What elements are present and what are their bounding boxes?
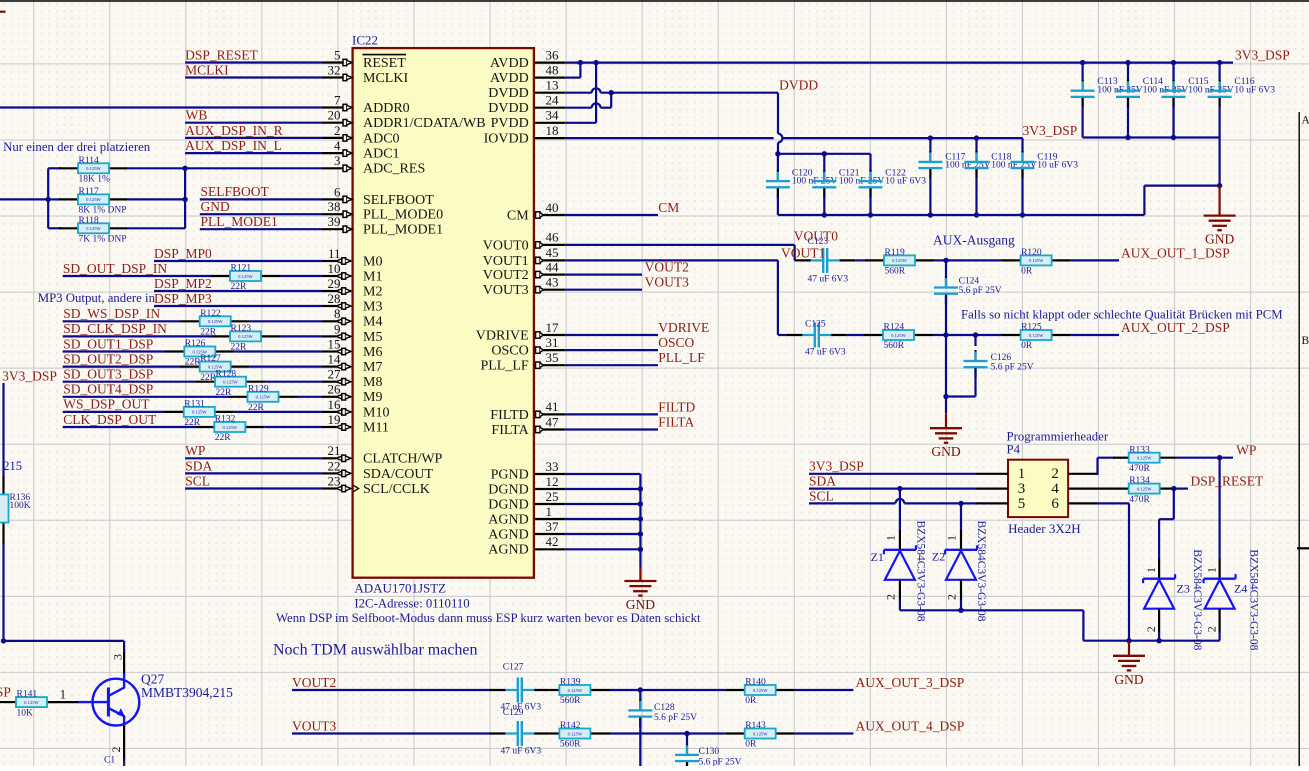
- resistor R121 pins: [211, 275, 230, 277]
- svg-text:25: 25: [546, 489, 559, 504]
- svg-text:0.125W: 0.125W: [1029, 333, 1044, 338]
- wire gnd jog: [1143, 186, 1145, 215]
- wire VOUT2 row: [292, 689, 491, 691]
- svg-text:1: 1: [60, 687, 67, 702]
- svg-text:GND: GND: [626, 597, 655, 612]
- svg-text:0.125W: 0.125W: [568, 688, 583, 693]
- junction: [1156, 638, 1161, 643]
- svg-text:R140: R140: [745, 678, 766, 688]
- svg-text:9: 9: [334, 321, 341, 336]
- wire C126 bottom: [974, 370, 976, 397]
- svg-text:3V3_DSP: 3V3_DSP: [1235, 47, 1290, 62]
- svg-text:DVDD: DVDD: [779, 78, 818, 93]
- svg-text:M0: M0: [363, 254, 382, 269]
- wire Z1 bottom: [899, 600, 901, 611]
- svg-text:AVDD: AVDD: [490, 56, 529, 71]
- resistor R134: [1129, 476, 1160, 505]
- junction: [182, 197, 187, 202]
- svg-text:FILTA: FILTA: [658, 414, 694, 429]
- svg-text:0.125W: 0.125W: [753, 731, 768, 736]
- svg-text:39: 39: [328, 214, 341, 229]
- svg-text:AVDD: AVDD: [490, 71, 529, 86]
- svg-text:AUX_OUT_4_DSP: AUX_OUT_4_DSP: [856, 719, 965, 734]
- wire R119-R120: [934, 259, 1002, 261]
- wire Z4 bottom: [1218, 632, 1220, 641]
- wire VOUT1: [565, 259, 778, 261]
- svg-text:C126: C126: [991, 353, 1012, 363]
- wire to AUX4: [795, 732, 854, 734]
- svg-text:VDRIVE: VDRIVE: [476, 328, 529, 343]
- wire hop: [778, 134, 782, 143]
- wire hop: [592, 103, 601, 107]
- svg-text:41: 41: [546, 399, 559, 414]
- svg-text:ADC_RES: ADC_RES: [363, 162, 425, 177]
- junction: [775, 151, 780, 156]
- svg-text:ADDR0: ADDR0: [363, 101, 410, 116]
- resistor R129 pins: [229, 396, 248, 398]
- svg-text:BZX584C3V3-G3-08: BZX584C3V3-G3-08: [1191, 549, 1203, 650]
- capacitor C128: [628, 699, 697, 727]
- svg-text:BZX584C3V3-G3-08: BZX584C3V3-G3-08: [1248, 549, 1260, 650]
- wire SCL: [185, 487, 322, 489]
- wire PLL_MODE1: [200, 228, 323, 230]
- junction: [928, 135, 933, 140]
- pin 14 (M7): [323, 352, 383, 376]
- svg-text:2: 2: [109, 747, 123, 753]
- svg-text:DSP_MP3: DSP_MP3: [154, 291, 212, 306]
- wire M11 left: [63, 426, 196, 428]
- svg-text:560R: 560R: [560, 696, 581, 706]
- svg-text:0.125W: 0.125W: [1137, 486, 1152, 491]
- svg-text:4: 4: [334, 138, 341, 153]
- svg-text:DVDD: DVDD: [488, 86, 528, 101]
- junction: [578, 60, 583, 65]
- svg-text:47: 47: [546, 414, 560, 429]
- capacitor C120: [766, 154, 838, 215]
- wire GND: [200, 213, 323, 215]
- svg-text:45: 45: [546, 245, 559, 260]
- pin 45 (VOUT1): [483, 245, 565, 269]
- junction: [684, 731, 689, 736]
- capacitor C122: [859, 154, 927, 215]
- wire GND bus rows: [565, 473, 640, 475]
- svg-text:0.125W: 0.125W: [891, 333, 906, 338]
- wire C123-R119: [855, 259, 865, 261]
- svg-text:SD_OUT2_DSP: SD_OUT2_DSP: [63, 351, 153, 366]
- pin 18 (IOVDD): [484, 123, 566, 147]
- junction: [974, 135, 979, 140]
- resistor R117: [78, 187, 127, 216]
- svg-text:560R: 560R: [884, 341, 905, 351]
- ground chip bottom: [624, 567, 656, 612]
- svg-text:C125: C125: [805, 319, 826, 329]
- junction: [943, 332, 948, 337]
- svg-text:FILTD: FILTD: [658, 399, 695, 414]
- svg-text:3V3_DSP: 3V3_DSP: [1023, 123, 1078, 138]
- svg-text:0.125W: 0.125W: [238, 334, 253, 339]
- svg-text:2: 2: [1051, 466, 1059, 482]
- svg-text:RESET: RESET: [363, 56, 406, 71]
- wire 3V3 header: [809, 473, 977, 475]
- wire to AUX3: [795, 689, 854, 691]
- svg-text:WP: WP: [185, 443, 205, 458]
- header pin 3: [976, 488, 1008, 490]
- zener Z1: [871, 521, 927, 622]
- svg-text:VOUT0: VOUT0: [483, 238, 529, 253]
- svg-text:26: 26: [328, 382, 342, 397]
- svg-text:0R: 0R: [1021, 341, 1033, 351]
- svg-text:VOUT3: VOUT3: [292, 719, 336, 734]
- capacitor C125: [787, 319, 847, 357]
- svg-text:0.125W: 0.125W: [86, 166, 101, 171]
- wire DSP_RESET: [185, 61, 322, 63]
- svg-text:SD_OUT1_DSP: SD_OUT1_DSP: [63, 336, 153, 351]
- header pin 1: [976, 473, 1008, 475]
- resistor R122 pins: [181, 320, 200, 322]
- pin 35 (PLL_LF): [480, 350, 565, 374]
- wire M10 right: [234, 411, 323, 413]
- svg-text:WB: WB: [186, 108, 208, 123]
- capacitor C113: [1071, 63, 1143, 138]
- pin 2 Z2 lead: [960, 580, 962, 600]
- svg-text:IC22: IC22: [352, 32, 378, 47]
- wire pin34 link: [565, 122, 596, 124]
- svg-text:R126: R126: [185, 339, 206, 349]
- resistor R122: [200, 309, 231, 338]
- svg-text:MCLKI: MCLKI: [363, 71, 408, 86]
- ground stub bottom: [123, 763, 125, 766]
- sheet tick left: [0, 11, 6, 13]
- svg-text:SDA: SDA: [185, 458, 212, 473]
- svg-text:I2C-Adresse: 0110110: I2C-Adresse: 0110110: [354, 596, 469, 610]
- svg-text:DVDD: DVDD: [488, 101, 528, 116]
- pin 3 (ADC_RES): [323, 153, 426, 177]
- svg-text:1: 1: [1205, 567, 1219, 573]
- pin 40 (CM): [507, 200, 565, 224]
- svg-text:18K 1%: 18K 1%: [79, 175, 110, 185]
- resistor R129: [248, 384, 279, 413]
- resistor R131 pins: [165, 411, 184, 413]
- svg-text:GND: GND: [931, 444, 960, 459]
- svg-text:6: 6: [1051, 496, 1059, 512]
- junction: [46, 197, 51, 202]
- svg-text:21: 21: [328, 443, 341, 458]
- capacitor C123: [795, 237, 855, 285]
- resistor R128: [215, 369, 246, 398]
- wire M8 left: [63, 381, 197, 383]
- svg-text:VOUT0: VOUT0: [794, 228, 838, 243]
- svg-text:48: 48: [546, 62, 559, 77]
- junction: [1217, 455, 1222, 460]
- wire pin24 link: [565, 107, 592, 109]
- resistor R125: [1021, 323, 1052, 352]
- junction: [638, 501, 643, 506]
- svg-text:DGND: DGND: [488, 482, 528, 497]
- svg-text:PLL_MODE1: PLL_MODE1: [363, 223, 443, 238]
- resistor R139 pins: [591, 689, 610, 691]
- resistor R127: [200, 354, 231, 383]
- svg-text:AGND: AGND: [488, 543, 528, 558]
- resistor R120 pins: [1002, 259, 1021, 261]
- pin 34 (PVDD): [491, 108, 566, 132]
- wire ADDR0: [0, 106, 323, 108]
- svg-text:AGND: AGND: [488, 512, 528, 527]
- svg-text:SD_WS_DSP_IN: SD_WS_DSP_IN: [63, 306, 160, 321]
- wire M6 right: [234, 350, 322, 352]
- wire to AUX1: [1071, 259, 1119, 261]
- svg-text:M3: M3: [363, 299, 382, 314]
- junction: [638, 547, 643, 552]
- wire right bus: [184, 168, 186, 228]
- pin 4 (ADC1): [323, 138, 400, 162]
- svg-text:AUX_DSP_IN_R: AUX_DSP_IN_R: [185, 123, 283, 138]
- svg-text:0.125W: 0.125W: [222, 425, 237, 430]
- transistor Q27: [79, 674, 140, 727]
- svg-text:SDA/COUT: SDA/COUT: [363, 467, 433, 482]
- svg-text:M10: M10: [363, 405, 389, 420]
- wire 3V3 vertical: [2, 383, 4, 476]
- svg-text:R125: R125: [1021, 323, 1042, 333]
- svg-text:0.125W: 0.125W: [208, 319, 223, 324]
- zener Z2: [932, 521, 987, 622]
- svg-text:WP: WP: [1236, 443, 1256, 458]
- svg-text:C1: C1: [104, 756, 115, 766]
- wire M4 right: [250, 320, 323, 322]
- svg-text:2: 2: [1205, 626, 1219, 632]
- svg-text:36: 36: [546, 47, 560, 62]
- svg-text:14: 14: [328, 352, 342, 367]
- wire M9 left: [63, 396, 229, 398]
- svg-text:27: 27: [328, 367, 342, 382]
- svg-text:23: 23: [328, 473, 341, 488]
- svg-text:Z4: Z4: [1234, 581, 1247, 595]
- wire WB: [185, 122, 322, 124]
- svg-text:AGND: AGND: [488, 527, 528, 542]
- svg-text:SD_CLK_DSP_IN: SD_CLK_DSP_IN: [63, 321, 167, 336]
- pin 2 (ADC0): [323, 123, 400, 147]
- capacitor C124: [934, 277, 1002, 305]
- svg-text:33: 33: [546, 459, 559, 474]
- svg-text:46: 46: [546, 230, 560, 245]
- wire DVDD vertical: [777, 93, 779, 134]
- svg-text:M6: M6: [363, 345, 382, 360]
- junction: [958, 501, 963, 506]
- resistor R114 pins: [59, 167, 78, 169]
- svg-text:M2: M2: [363, 284, 382, 299]
- pin 6 (SELFBOOT): [323, 184, 435, 208]
- resistor R139: [559, 678, 590, 707]
- wire SCL header: [809, 502, 896, 504]
- svg-text:5.6 pF 25V: 5.6 pF 25V: [654, 713, 697, 723]
- resistor R132 pins: [195, 426, 214, 428]
- pin 47 (FILTA): [491, 414, 565, 438]
- wire Z2 bottom: [960, 600, 962, 611]
- junction: [1171, 135, 1176, 140]
- pin 1 Z1 lead: [899, 530, 901, 550]
- capacitor C115: [1162, 63, 1234, 138]
- resistor R140 pins: [726, 689, 745, 691]
- wire C124 node: [945, 260, 947, 277]
- wire fragment right edge: [1297, 547, 1309, 549]
- svg-text:VOUT3: VOUT3: [645, 275, 689, 290]
- resistor R123: [230, 324, 261, 353]
- svg-text:0.125W: 0.125W: [238, 274, 253, 279]
- junction: [1217, 60, 1222, 65]
- svg-text:0.125W: 0.125W: [568, 731, 583, 736]
- pin 1 (AGND): [488, 504, 565, 528]
- svg-text:47 uF 6V3: 47 uF 6V3: [808, 274, 849, 284]
- svg-text:5.6 pF 25V: 5.6 pF 25V: [959, 286, 1002, 296]
- header P4 body: [1008, 460, 1068, 517]
- svg-text:IOVDD: IOVDD: [484, 132, 529, 147]
- wire C120 rail: [778, 153, 871, 155]
- svg-text:5: 5: [334, 47, 341, 62]
- svg-text:R124: R124: [884, 323, 905, 333]
- svg-text:C130: C130: [699, 747, 720, 757]
- svg-text:15: 15: [328, 336, 341, 351]
- svg-text:47 uF 6V3: 47 uF 6V3: [501, 747, 542, 757]
- junction: [1080, 60, 1085, 65]
- svg-text:6: 6: [334, 184, 341, 199]
- resistor R117 pins: [59, 198, 78, 200]
- junction: [1125, 60, 1130, 65]
- svg-text:CM: CM: [507, 208, 529, 223]
- pin 44 (VOUT2): [483, 259, 565, 283]
- wire M1 right: [280, 275, 323, 277]
- svg-text:VDRIVE: VDRIVE: [658, 320, 709, 335]
- resistor R133 pins: [1113, 457, 1129, 459]
- svg-text:3: 3: [1018, 481, 1026, 497]
- svg-text:470R: 470R: [1129, 495, 1150, 505]
- svg-text:R132: R132: [215, 415, 236, 425]
- wire WP: [185, 457, 322, 459]
- pin 23 (SCL/CCLK): [323, 473, 430, 497]
- svg-text:VOUT2: VOUT2: [483, 268, 529, 283]
- wire M1 left: [63, 275, 212, 277]
- svg-text:ADC1: ADC1: [363, 147, 400, 162]
- svg-text:FILTD: FILTD: [490, 408, 528, 423]
- pin 21 (CLATCH/WP): [323, 443, 443, 467]
- wire M7 left: [63, 366, 182, 368]
- svg-text:43: 43: [546, 275, 559, 290]
- resistor R119 pins: [865, 259, 884, 261]
- svg-text:560R: 560R: [560, 740, 581, 750]
- wire Z1Z2 rail: [900, 609, 1084, 611]
- svg-text:C129: C129: [503, 708, 524, 718]
- wire R117 out: [126, 198, 185, 200]
- svg-text:SCL/CCLK: SCL/CCLK: [363, 482, 430, 497]
- wire M6 left: [63, 350, 166, 352]
- junction: [1020, 212, 1025, 217]
- wire SDA header: [809, 488, 977, 490]
- svg-text:7: 7: [334, 92, 341, 107]
- svg-text:ADDR1/CDATA/WB: ADDR1/CDATA/WB: [363, 116, 486, 131]
- junction: [822, 212, 827, 217]
- junction: [1171, 486, 1176, 491]
- svg-text:R121: R121: [231, 264, 252, 274]
- pin 42 (AGND): [488, 534, 565, 558]
- pin 7 (ADDR0): [323, 92, 410, 116]
- wire Z2 top: [960, 503, 962, 530]
- wire M10 left: [63, 411, 166, 413]
- svg-text:37: 37: [546, 519, 560, 534]
- svg-text:FILTA: FILTA: [491, 423, 529, 438]
- svg-text:A: A: [1302, 115, 1309, 127]
- svg-text:R117: R117: [79, 187, 99, 197]
- wire M4 left: [63, 320, 182, 322]
- svg-text:R119: R119: [885, 248, 905, 258]
- pin 48 (AVDD): [490, 62, 565, 86]
- resistor R142: [559, 721, 590, 750]
- wire Z4 branch: [1218, 458, 1220, 559]
- wire C130 top: [686, 734, 688, 745]
- wire ADC_RES row: [126, 167, 323, 169]
- capacitor C127: [490, 662, 550, 712]
- pin 1 Z4 lead: [1218, 559, 1220, 580]
- junction: [974, 212, 979, 217]
- wire C128 top: [639, 690, 641, 700]
- pin 11 (M0): [323, 246, 383, 270]
- junction: [182, 166, 187, 171]
- svg-text:20: 20: [328, 108, 341, 123]
- wire FILTA: [565, 428, 658, 430]
- pin 28 (M3): [323, 291, 383, 315]
- svg-text:2: 2: [334, 123, 341, 138]
- svg-text:WS_DSP_OUT: WS_DSP_OUT: [63, 397, 150, 412]
- resistor R125 pins: [1002, 334, 1021, 336]
- pin 2 Z4 lead: [1218, 609, 1220, 633]
- svg-text:0.125W: 0.125W: [1137, 456, 1152, 461]
- svg-text:P4: P4: [1007, 442, 1021, 456]
- svg-text:R118: R118: [79, 216, 99, 226]
- pin 31 (OSCO): [491, 335, 565, 359]
- pin 10 (M1): [323, 261, 383, 285]
- sheet border right: [1299, 112, 1309, 766]
- svg-text:2: 2: [945, 594, 959, 600]
- wire R134-label: [1174, 488, 1188, 490]
- capacitor C126: [964, 350, 1034, 378]
- svg-text:R134: R134: [1129, 476, 1150, 486]
- svg-text:0.125W: 0.125W: [223, 380, 238, 385]
- svg-text:5.6 pF 25V: 5.6 pF 25V: [991, 363, 1034, 373]
- wire C126 top: [974, 335, 976, 346]
- svg-text:SD_OUT_DSP_IN: SD_OUT_DSP_IN: [63, 261, 168, 276]
- svg-text:10 uF 6V3: 10 uF 6V3: [1037, 161, 1078, 171]
- resistor R119: [884, 248, 915, 277]
- svg-text:MP3 Output, andere in: MP3 Output, andere in: [38, 291, 156, 305]
- svg-text:VOUT1: VOUT1: [483, 254, 529, 269]
- resistor R118 pins: [59, 227, 78, 229]
- svg-text:1: 1: [945, 535, 959, 541]
- svg-text:M7: M7: [363, 360, 382, 375]
- wire hop: [592, 88, 601, 92]
- svg-text:7K 1% DNP: 7K 1% DNP: [79, 235, 127, 245]
- wire collector rail: [2, 640, 124, 642]
- svg-text:PLL_MODE0: PLL_MODE0: [363, 208, 443, 223]
- svg-text:0.125W: 0.125W: [892, 258, 907, 263]
- wire M11 right: [264, 426, 322, 428]
- capacitor C118: [965, 138, 1037, 215]
- svg-text:R128: R128: [216, 369, 237, 379]
- svg-text:1: 1: [546, 504, 553, 519]
- pin 43 (VOUT3): [483, 275, 565, 299]
- svg-text:SELFBOOT: SELFBOOT: [201, 184, 270, 199]
- pin 29 (M2): [323, 276, 383, 300]
- pin 27 (M8): [323, 367, 383, 391]
- capacitor C117: [918, 138, 990, 215]
- wire C129-R142: [550, 732, 560, 734]
- svg-text:4: 4: [1051, 481, 1059, 497]
